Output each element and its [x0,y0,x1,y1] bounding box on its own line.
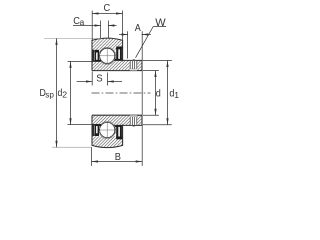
centerline [92,92,151,94]
svg-text:C: C [104,2,111,14]
white background [0,0,230,167]
svg-text:d: d [156,88,161,100]
top half of bearing section [92,38,142,70]
dimension B [92,147,143,166]
gray tangent line bottom [52,146,92,148]
bottom half of bearing section (mirrored) [92,115,142,147]
dimension d1 [143,61,172,125]
svg-text:a: a [80,17,85,27]
svg-text:W: W [155,17,166,29]
svg-text:sp: sp [45,90,54,99]
dimension Ca [73,21,117,39]
dimension S [77,72,122,86]
dimension A [119,31,151,58]
extension line inner ring face (A top / B bottom) [141,31,143,166]
svg-text:1: 1 [174,90,179,100]
gray tangent line top [44,37,101,39]
svg-text:2: 2 [62,90,67,100]
svg-text:S: S [96,73,103,84]
dimension d2 [70,61,72,124]
dimension Dsp [56,38,58,147]
svg-text:A: A [135,23,142,35]
svg-text:B: B [115,152,122,164]
dimension d [143,71,159,116]
dimension C [92,11,123,41]
